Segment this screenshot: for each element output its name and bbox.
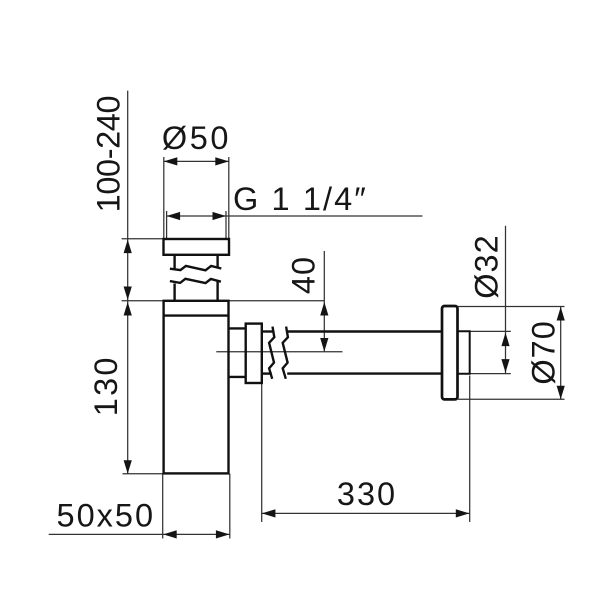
top flange rect (164, 239, 230, 255)
tailpipe upper right edge (216, 255, 218, 267)
arrowhead D50 right (215, 157, 229, 165)
arrowhead 40 down (320, 338, 328, 352)
svg-text:40: 40 (285, 256, 321, 294)
extension line 50x50 left (162, 474, 164, 539)
svg-text:50x50: 50x50 (57, 498, 156, 534)
arrowhead 130 down (124, 460, 132, 474)
arrowhead 130 up (124, 302, 132, 316)
arrowhead G left (167, 212, 181, 220)
dimension and leader line G 1 1/4 (167, 215, 423, 217)
outlet pipe bottom right segment (287, 372, 442, 374)
arrowhead G right (213, 212, 227, 220)
dimension line 100-240 and 130 vertical (127, 91, 129, 474)
arrowhead D32 down (501, 359, 509, 373)
svg-text:Ø32: Ø32 (469, 234, 505, 298)
arrowhead 40 up (320, 302, 328, 316)
trap body rim line (164, 314, 229, 316)
arrowhead D50 left (164, 157, 178, 165)
arrowhead 50x50 left (163, 530, 177, 538)
outlet neck top (229, 327, 246, 329)
extension line D32 top (470, 330, 511, 332)
svg-text:130: 130 (88, 355, 124, 416)
outlet nut (246, 324, 262, 383)
pipe end stub (458, 331, 470, 373)
pipe centerline (216, 351, 342, 353)
dimension line D50 (164, 160, 229, 162)
outlet neck bottom (229, 376, 246, 378)
dimension line 330 (262, 512, 470, 514)
arrowhead 330 right (456, 509, 470, 517)
outlet pipe top right segment (288, 330, 443, 332)
pipe break left (269, 327, 274, 379)
dimension line 40 vertical (323, 251, 325, 352)
tailpipe lower left edge (173, 284, 175, 301)
dimension and leader line 50x50 (49, 533, 230, 535)
svg-text:Ø70: Ø70 (525, 320, 561, 384)
tailpipe break lower (170, 279, 221, 283)
svg-text:100-240: 100-240 (91, 96, 127, 212)
outlet pipe top left segment (262, 330, 273, 332)
arrowhead D70 up (557, 307, 565, 321)
extension line D70 bottom (458, 398, 565, 400)
dimension leader D32 vertical (505, 226, 507, 374)
trap body (164, 301, 229, 474)
svg-text:Ø50: Ø50 (162, 120, 231, 156)
tailpipe break upper (170, 266, 221, 270)
extension line 330 left (261, 383, 263, 522)
tailpipe upper left edge (173, 255, 175, 270)
extension line 50x50 right (229, 474, 231, 539)
extension tick G left (166, 211, 168, 239)
dimension line D70 vertical (560, 307, 562, 400)
pipe break right (283, 327, 288, 379)
extension line body bottom left (123, 473, 164, 475)
extension line D70 top (458, 306, 565, 308)
arrowhead 330 left (262, 509, 276, 517)
svg-text:G 1 1/4″: G 1 1/4″ (233, 181, 368, 217)
extension line D32 bottom (470, 373, 511, 375)
extension line D50 right (228, 157, 230, 239)
arrowhead D70 down (557, 386, 565, 400)
extension tick G right (225, 211, 227, 239)
extension line flange top left (122, 238, 164, 240)
arrowhead D32 up (501, 333, 509, 347)
arrowhead 50x50 right (216, 530, 230, 538)
extension line body top (long, to 40-dim) (122, 300, 325, 302)
arrowhead 100-240 up (124, 240, 132, 254)
extension line D50 left (163, 157, 165, 239)
extension line 330 right (469, 376, 471, 523)
outlet pipe bottom left segment (262, 372, 272, 374)
wall flange rounded (442, 306, 458, 399)
tailpipe lower right edge (216, 280, 218, 301)
arrowhead 100-240 down (124, 287, 132, 301)
svg-text:330: 330 (337, 476, 397, 512)
